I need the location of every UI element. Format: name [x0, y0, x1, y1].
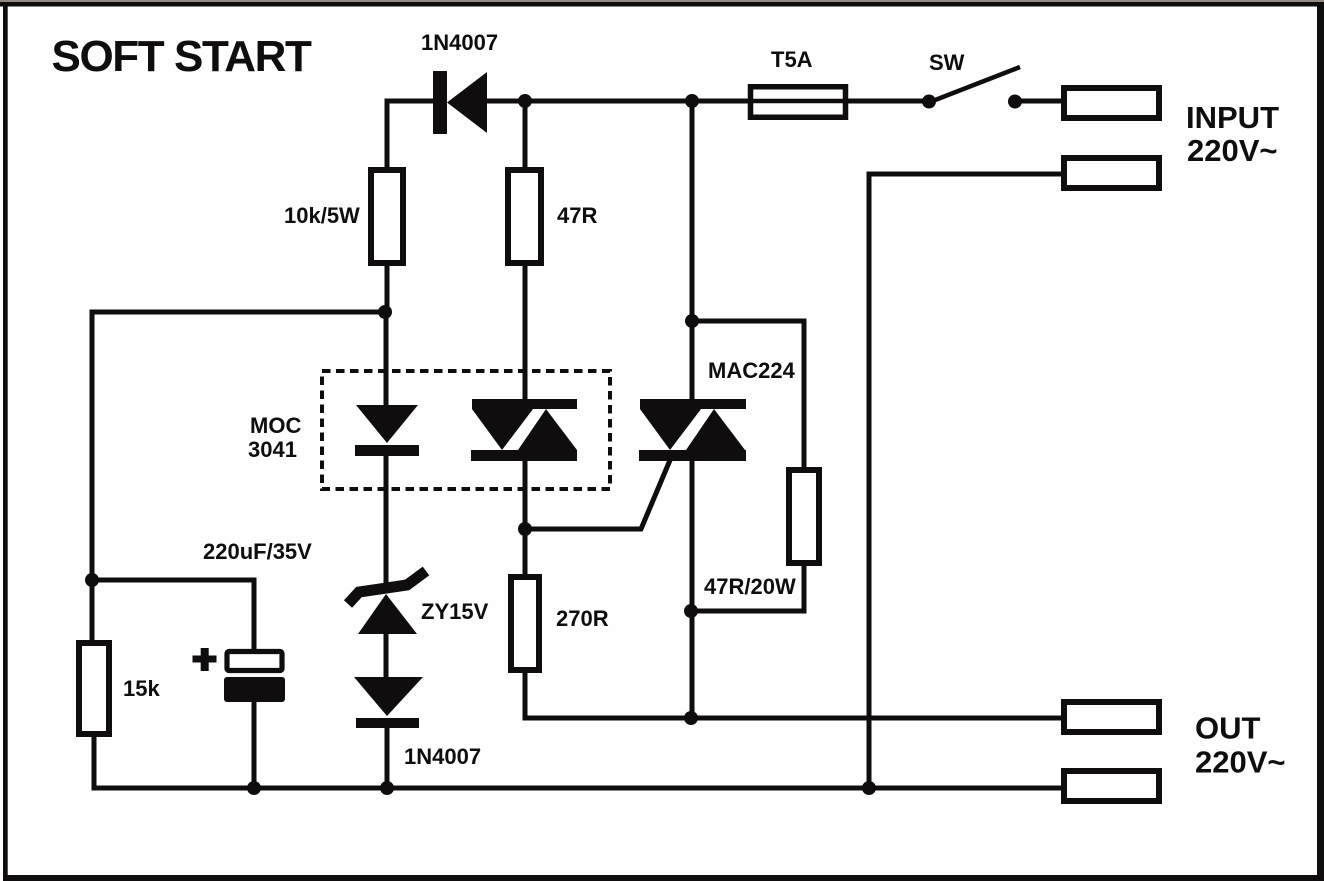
svg-text:220V~: 220V~	[1187, 133, 1278, 168]
node OUT rail left	[684, 711, 698, 725]
resistor R2 47R	[508, 170, 541, 263]
node at diode cathode / 47R	[518, 94, 532, 108]
node diode bottom rail	[380, 781, 394, 795]
svg-text:220V~: 220V~	[1195, 745, 1286, 780]
terminal OUT-1	[1064, 702, 1159, 732]
wire zener to diode	[384, 634, 389, 679]
wire 47R/20W bottom	[691, 563, 804, 611]
wire 10k bottom to node A	[385, 263, 390, 312]
terminal INPUT-2	[1064, 158, 1159, 188]
plus sign of C1	[193, 648, 217, 671]
node A 10k bottom	[378, 305, 392, 319]
wire LED to zener	[384, 456, 389, 592]
node 47R20W bottom	[684, 604, 698, 618]
wire 47R bottom to MOC triac	[523, 263, 528, 401]
border frame	[0, 0, 1324, 2]
wire diode to bottom rail	[385, 728, 390, 788]
fuse T5A	[748, 87, 848, 118]
svg-text:INPUT: INPUT	[1186, 100, 1279, 135]
node input2 bottom rail	[862, 781, 876, 795]
svg-text:ZY15V: ZY15V	[421, 599, 489, 624]
node cap top / 15k	[85, 573, 99, 587]
svg-text:SW: SW	[929, 50, 965, 75]
svg-text:15k: 15k	[123, 676, 160, 701]
capacitor C1 220uF/35V	[224, 652, 285, 703]
svg-text:MAC224: MAC224	[708, 358, 796, 383]
terminal INPUT-1	[1064, 88, 1159, 118]
node at fuse left / MAC branch	[685, 94, 699, 108]
node gate / 270R	[518, 522, 532, 536]
resistor R4 270R	[511, 577, 539, 670]
zener D3 ZY15V	[348, 571, 426, 634]
wire 47R/20W top branch	[692, 321, 804, 470]
svg-text:MOC: MOC	[250, 413, 301, 438]
node cap bottom rail	[247, 781, 261, 795]
resistor R1 10k/5W	[371, 170, 403, 263]
wire MAC224 main vertical	[690, 101, 695, 401]
svg-text:10k/5W: 10k/5W	[284, 203, 360, 228]
diode D1 1N4007 top	[433, 71, 487, 134]
node MAC top / 47R20W	[685, 314, 699, 328]
svg-text:SOFT START: SOFT START	[52, 32, 312, 81]
LED D2 inside MOC	[355, 405, 419, 456]
gate wire of MAC224	[525, 453, 673, 529]
resistor R3 47R/20W	[789, 470, 819, 563]
svg-text:270R: 270R	[556, 606, 609, 631]
wire 47R top	[523, 101, 528, 170]
svg-text:47R: 47R	[557, 203, 597, 228]
svg-text:220uF/35V: 220uF/35V	[203, 539, 312, 564]
optocoupler U1 MOC3041 dashed box	[322, 371, 610, 489]
wire 270R bottom to out rail	[525, 670, 1061, 718]
wire MOC diode drop	[384, 312, 389, 407]
wire 15k bottom + bottom rail	[94, 734, 1061, 788]
svg-text:47R/20W: 47R/20W	[704, 574, 796, 599]
wire node A horizontal y312	[92, 312, 385, 643]
wire MOC triac bottom to gate node	[523, 461, 528, 577]
svg-text:1N4007: 1N4007	[421, 30, 498, 55]
svg-text:OUT: OUT	[1195, 711, 1261, 746]
resistor R5 15k	[79, 643, 109, 734]
diode D4 1N4007 bottom	[354, 677, 423, 728]
wire input2 to bottom rail	[869, 174, 1061, 788]
wire cap branch y580	[92, 580, 254, 652]
svg-text:1N4007: 1N4007	[404, 744, 481, 769]
svg-text:3041: 3041	[248, 437, 297, 462]
triac Q1 MAC224	[639, 399, 746, 461]
phototriac inside MOC	[471, 399, 577, 461]
switch SW	[922, 67, 1022, 109]
svg-text:T5A: T5A	[771, 47, 813, 72]
wire top net from diode anode corner to fuse	[387, 101, 1061, 167]
wire cap bottom	[252, 700, 257, 788]
terminal OUT-2	[1064, 771, 1159, 801]
